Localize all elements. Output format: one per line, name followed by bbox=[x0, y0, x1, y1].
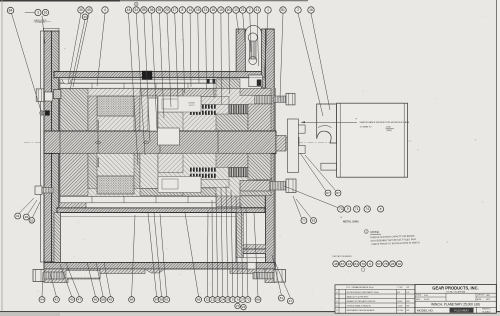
svg-text:CHECKED: CHECKED bbox=[477, 295, 485, 297]
bottom balloon row bbox=[42, 272, 43, 297]
svg-text:BRAKE NOTES ADD ITEM 81: BRAKE NOTES ADD ITEM 81 bbox=[347, 300, 377, 303]
planet pin white column upper bbox=[148, 98, 158, 131]
metal shim balloon row 73 9 71 74 8 bbox=[284, 186, 338, 208]
left border line bbox=[1, 0, 3, 312]
sun gear teeth lower bbox=[229, 168, 249, 177]
svg-text:74: 74 bbox=[365, 207, 369, 211]
svg-text:30: 30 bbox=[79, 8, 83, 12]
svg-text:42: 42 bbox=[55, 298, 59, 302]
svg-text:58: 58 bbox=[101, 298, 105, 302]
svg-text:18: 18 bbox=[211, 8, 215, 12]
svg-text:15: 15 bbox=[196, 8, 200, 12]
svg-text:12: 12 bbox=[211, 298, 215, 302]
svg-text:MODEL NO.: MODEL NO. bbox=[417, 309, 434, 313]
svg-text:17: 17 bbox=[173, 8, 177, 12]
ring gear plate strip lower bbox=[60, 83, 230, 88]
shaft center mark bbox=[95, 141, 101, 144]
top sparse balloons bbox=[264, 13, 268, 80]
svg-text:34: 34 bbox=[134, 8, 138, 12]
svg-text:10: 10 bbox=[219, 8, 223, 12]
note block bbox=[364, 230, 368, 234]
svg-text:43: 43 bbox=[70, 298, 74, 302]
svg-text:48: 48 bbox=[25, 215, 29, 219]
drum hub hatched mass (left) bbox=[44, 96, 86, 208]
bottom margin strip bbox=[0, 312, 500, 316]
svg-text:81: 81 bbox=[280, 296, 284, 300]
svg-text:40: 40 bbox=[87, 8, 91, 12]
svg-text:47: 47 bbox=[289, 299, 293, 303]
svg-text:85: 85 bbox=[142, 8, 146, 12]
svg-text:81: 81 bbox=[165, 298, 169, 302]
hydraulic motor cylinder bbox=[337, 103, 408, 177]
balloons 77 82 bbox=[293, 196, 302, 218]
flange top cap bbox=[44, 28, 59, 31]
svg-text:84: 84 bbox=[354, 262, 358, 266]
shim dimension line bbox=[301, 121, 357, 123]
drum left flange outer strip bbox=[41, 31, 45, 262]
left roller bearing upper bbox=[76, 121, 99, 130]
svg-text:NOTE:: NOTE: bbox=[370, 230, 379, 234]
svg-text:2: 2 bbox=[297, 8, 299, 12]
svg-text:ITEM 41 WAS 2 REQD B: ITEM 41 WAS 2 REQD B bbox=[347, 305, 372, 308]
shaft right stub to motor bbox=[276, 136, 286, 152]
shaft steps bbox=[59, 131, 61, 153]
svg-text:PG15-04B4X: PG15-04B4X bbox=[454, 310, 469, 313]
bottom border line bbox=[0, 311, 500, 313]
svg-text:10: 10 bbox=[398, 262, 402, 266]
misc housing rects lower bbox=[60, 153, 88, 195]
bottom band step mid-left bbox=[100, 269, 145, 274]
svg-text:1-7-83: 1-7-83 bbox=[397, 287, 402, 289]
svg-text:REDRAWN ITEM 83-84 ADD: REDRAWN ITEM 83-84 ADD bbox=[347, 309, 375, 312]
svg-text:21: 21 bbox=[241, 8, 245, 12]
drum left flange chevron right half bbox=[52, 31, 60, 262]
svg-text:RW: RW bbox=[406, 306, 409, 308]
svg-text:RW: RW bbox=[406, 301, 409, 303]
spring upper coil bbox=[248, 33, 257, 42]
brake piston stipple block upper bbox=[97, 96, 134, 116]
svg-text:JW: JW bbox=[406, 287, 409, 289]
svg-text:5: 5 bbox=[232, 298, 234, 302]
drum barrel top wall bbox=[54, 72, 272, 78]
dark marks lower mirror bbox=[191, 198, 197, 204]
svg-text:31: 31 bbox=[16, 214, 20, 218]
misc housing rects upper bbox=[60, 89, 88, 132]
svg-text:27: 27 bbox=[236, 304, 240, 308]
balloons 30 40 pair with 33 bbox=[68, 13, 81, 84]
svg-text:3: 3 bbox=[37, 11, 39, 15]
end cover plate bbox=[288, 119, 299, 173]
bottom extra pair below row bbox=[235, 303, 240, 308]
svg-text:87: 87 bbox=[336, 191, 340, 195]
sun gear teeth upper bbox=[229, 105, 249, 114]
output stud lower right with nut bbox=[240, 181, 270, 192]
svg-text:27: 27 bbox=[241, 298, 245, 302]
seal dot upper bbox=[182, 93, 188, 99]
svg-text:36: 36 bbox=[150, 8, 154, 12]
balloons 3 and 16 with tick bbox=[25, 12, 35, 14]
lower cavity base hatch bbox=[60, 153, 265, 196]
lower drum outline bbox=[60, 213, 236, 263]
svg-text:24: 24 bbox=[242, 305, 246, 309]
spring lower coil bbox=[249, 57, 257, 65]
svg-text:JRW: JRW bbox=[486, 295, 490, 297]
svg-text:87: 87 bbox=[155, 298, 159, 302]
svg-text:2: 2 bbox=[249, 8, 251, 12]
svg-text:13: 13 bbox=[348, 262, 352, 266]
dark corner block lower left bbox=[64, 182, 70, 190]
svg-text:28: 28 bbox=[391, 262, 395, 266]
svg-text:14: 14 bbox=[188, 8, 192, 12]
spring housing lower box bbox=[249, 75, 263, 87]
balloon 4 single bbox=[97, 13, 105, 86]
title block company panel bbox=[415, 284, 496, 313]
svg-text:4876: 4876 bbox=[486, 299, 490, 301]
svg-text:35: 35 bbox=[157, 8, 161, 12]
svg-text:4: 4 bbox=[104, 8, 106, 12]
svg-text:77: 77 bbox=[302, 219, 306, 223]
right end housing column bbox=[266, 29, 275, 271]
bottom-right hex bolt bbox=[253, 272, 274, 279]
lower drum right strip bbox=[236, 213, 243, 258]
svg-text:16: 16 bbox=[44, 11, 48, 15]
small circled 6 above row bbox=[134, 2, 138, 6]
clutch pack lower dashes bbox=[190, 168, 192, 172]
svg-text:9: 9 bbox=[347, 207, 349, 211]
svg-text:41: 41 bbox=[255, 8, 259, 12]
photo top edge line bbox=[0, 0, 308, 2]
svg-text:1: 1 bbox=[267, 8, 269, 12]
svg-text:16: 16 bbox=[309, 8, 313, 12]
brake piston stipple block lower bbox=[97, 176, 134, 194]
upper cavity base hatch bbox=[60, 89, 265, 132]
drum axis centerline bbox=[24, 142, 332, 144]
svg-text:NOTES REQD ITEM RATIO CHG: NOTES REQD ITEM RATIO CHG bbox=[347, 291, 380, 294]
motor foot bbox=[321, 163, 337, 170]
svg-text:83: 83 bbox=[160, 298, 164, 302]
cover bolt lower bbox=[298, 145, 305, 153]
bottom-left hex bolt bbox=[33, 270, 44, 282]
svg-text:67: 67 bbox=[326, 191, 330, 195]
svg-text:GEAR PRODUCTS, INC.: GEAR PRODUCTS, INC. bbox=[432, 285, 478, 290]
upper gear cavity outline bbox=[59, 78, 266, 132]
svg-text:TO SHIM TO: TO SHIM TO bbox=[360, 127, 372, 129]
svg-text:FULL: FULL bbox=[424, 295, 428, 297]
svg-text:11-7-83: 11-7-83 bbox=[397, 310, 403, 312]
svg-text:24: 24 bbox=[221, 298, 225, 302]
right border line bbox=[496, 0, 498, 316]
svg-text:86: 86 bbox=[130, 298, 134, 302]
svg-text:47: 47 bbox=[78, 298, 82, 302]
svg-text:SHIM DISTANCE FROM MOTOR M: SHIM DISTANCE FROM MOTOR MOUNTING PLANE bbox=[360, 121, 410, 124]
svg-text:57: 57 bbox=[377, 262, 381, 266]
svg-text:66: 66 bbox=[197, 298, 201, 302]
svg-text:33: 33 bbox=[83, 15, 87, 19]
svg-text:48: 48 bbox=[334, 262, 338, 266]
svg-text:53: 53 bbox=[30, 218, 34, 222]
lower drum left strip bbox=[54, 213, 60, 263]
svg-text:44: 44 bbox=[40, 298, 44, 302]
svg-text:87: 87 bbox=[341, 262, 345, 266]
title block revision table bbox=[335, 285, 415, 313]
svg-text:JW: JW bbox=[406, 310, 409, 312]
svg-text:9-8-83: 9-8-83 bbox=[397, 301, 402, 303]
bottom band right deep bbox=[265, 269, 275, 283]
spring stud threaded bbox=[250, 41, 256, 59]
svg-text:44: 44 bbox=[127, 8, 131, 12]
right-upper stud and nut bbox=[274, 96, 286, 102]
svg-text:.031 TK: .031 TK bbox=[189, 105, 196, 107]
svg-text:9: 9 bbox=[369, 262, 371, 266]
clutch pack upper dashes bbox=[190, 105, 192, 109]
brake spring pack lower bbox=[255, 178, 272, 186]
leader: balloon 84 bbox=[12, 13, 42, 111]
bottom flange band thin top bbox=[44, 263, 275, 270]
brake spring pack upper bbox=[255, 96, 272, 104]
svg-text:12: 12 bbox=[234, 8, 238, 12]
svg-text:81: 81 bbox=[281, 8, 285, 12]
right margin lighter strip bbox=[497, 0, 500, 316]
planet pin white column lower bbox=[148, 153, 158, 191]
lower gear cavity outline bbox=[59, 153, 266, 208]
svg-text:WINCH, PLANETARY 25,000 LB: WINCH, PLANETARY 25,000 LBS bbox=[431, 303, 480, 307]
svg-text:8-4-82: 8-4-82 bbox=[424, 299, 429, 301]
bottom band left deep bbox=[44, 269, 68, 283]
dark seal block on top bar bbox=[142, 71, 152, 80]
ring gear teeth dashes upper right bbox=[207, 79, 210, 84]
top dense balloon row bbox=[129, 13, 139, 165]
svg-text:88: 88 bbox=[256, 298, 260, 302]
left roller bearing lower bbox=[76, 158, 99, 167]
bottom band small insert bbox=[247, 263, 256, 270]
sun gear white bore segment bbox=[158, 128, 180, 145]
bottom band step mid-right bbox=[230, 269, 265, 274]
lower plate strip bbox=[60, 196, 230, 202]
balloon 84 bbox=[7, 7, 14, 14]
cover bolt upper bbox=[298, 125, 305, 133]
svg-text:13: 13 bbox=[204, 8, 208, 12]
svg-text:82: 82 bbox=[312, 219, 316, 223]
drum left flange chevron left half bbox=[44, 31, 52, 262]
svg-text:76: 76 bbox=[361, 262, 365, 266]
svg-text:71: 71 bbox=[355, 207, 359, 211]
svg-text:23: 23 bbox=[216, 298, 220, 302]
svg-text:20: 20 bbox=[165, 8, 169, 12]
svg-text:8: 8 bbox=[181, 8, 183, 12]
svg-text:6: 6 bbox=[237, 298, 239, 302]
ring gear plate strip upper bbox=[60, 80, 230, 83]
svg-text:METAL SHIM: METAL SHIM bbox=[343, 220, 359, 224]
left trio balloons bbox=[19, 198, 34, 214]
svg-text:(REF): (REF) bbox=[387, 130, 393, 132]
svg-text:78: 78 bbox=[384, 262, 388, 266]
svg-text:72: 72 bbox=[246, 298, 250, 302]
bottom band left mid bbox=[68, 269, 100, 279]
main shaft hatched bbox=[44, 131, 276, 153]
svg-text:46: 46 bbox=[94, 298, 98, 302]
svg-text:45: 45 bbox=[109, 298, 113, 302]
brake spring housing bbox=[236, 29, 245, 72]
svg-text:REF PART NUMBERS: REF PART NUMBERS bbox=[333, 255, 353, 258]
lower right plates bbox=[243, 245, 266, 249]
svg-text:25: 25 bbox=[226, 298, 230, 302]
svg-text:P.O. 70084A REISSUE Repl.: P.O. 70084A REISSUE Repl. bbox=[347, 286, 375, 289]
svg-text:84: 84 bbox=[9, 9, 13, 13]
motor mounting bracket bbox=[317, 104, 337, 143]
left-mid bolt bbox=[35, 186, 42, 195]
svg-text:B-10814: B-10814 bbox=[483, 311, 492, 313]
left-upper hydraulic fitting bbox=[36, 89, 44, 102]
svg-text:7-6-83: 7-6-83 bbox=[397, 306, 402, 308]
drum barrel bottom wall bbox=[57, 208, 265, 213]
mid-right balloons 67 87 bbox=[300, 153, 326, 191]
svg-text:11: 11 bbox=[206, 298, 209, 302]
svg-text:SEAL QTY & P/N REV: SEAL QTY & P/N REV bbox=[347, 296, 369, 299]
svg-text:4-8: 4-8 bbox=[397, 291, 400, 294]
svg-text:73: 73 bbox=[339, 207, 343, 211]
svg-text:60: 60 bbox=[227, 8, 231, 12]
svg-text:A SHIM: A SHIM bbox=[189, 102, 195, 105]
